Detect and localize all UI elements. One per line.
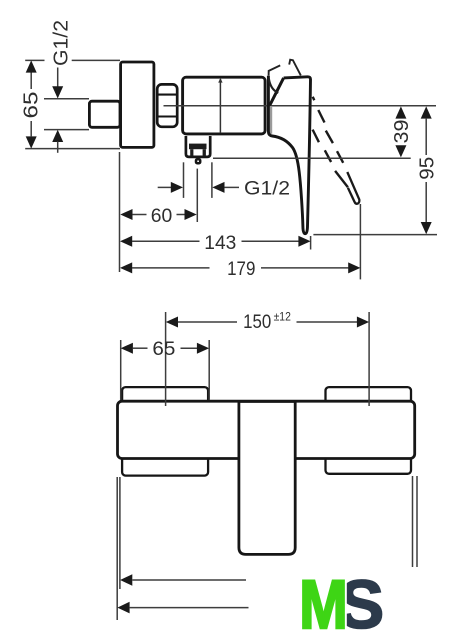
lever handle (closed position) bbox=[268, 76, 310, 234]
svg-text:150: 150 bbox=[243, 312, 271, 333]
svg-text:179: 179 bbox=[227, 259, 255, 280]
svg-text:39: 39 bbox=[390, 120, 413, 144]
dimension 39 bbox=[390, 106, 413, 157]
dimension 65 (escutcheon width) bbox=[121, 339, 209, 360]
dimension 179 bbox=[120, 259, 360, 280]
svg-text:M: M bbox=[299, 566, 348, 640]
extension line top of flange bbox=[25, 59, 120, 61]
unlabeled dimension row 2 bbox=[117, 602, 248, 614]
mixer body bar (front) bbox=[118, 401, 415, 458]
extension line lever tip bbox=[310, 236, 312, 250]
extension line top of inlet thread bbox=[44, 98, 89, 100]
dimension 95 bbox=[416, 106, 439, 234]
dimension 150+-12 bbox=[166, 311, 369, 333]
outlet block bbox=[186, 136, 210, 157]
line at lever tip (95 reference) bbox=[313, 234, 437, 236]
extension lines bottom left bbox=[116, 477, 118, 620]
svg-text:143: 143 bbox=[204, 233, 236, 254]
dashed lever tip bbox=[347, 172, 359, 204]
dimension 65 (flange height) bbox=[19, 60, 42, 148]
dimension G1/2 (outlet thread) bbox=[158, 178, 290, 199]
extension line dashed lever tip bbox=[359, 204, 361, 279]
lever handle open position (dashed outline) bbox=[313, 97, 348, 188]
extension line left escutcheon right edge bbox=[208, 340, 210, 400]
body seam line with tiny arrow bbox=[218, 78, 222, 133]
extension line left union center bbox=[165, 312, 167, 406]
svg-text:60: 60 bbox=[151, 206, 173, 227]
svg-text:95: 95 bbox=[416, 157, 439, 180]
extension line left escutcheon left edge bbox=[120, 340, 122, 400]
svg-text:G1/2: G1/2 bbox=[49, 20, 72, 66]
extension lines bottom right bbox=[412, 476, 414, 567]
right wall escutcheon (front) bbox=[326, 387, 412, 474]
extension line right union center bbox=[368, 312, 370, 406]
extension line outlet right edge bbox=[211, 162, 213, 198]
unlabeled dimension row 1 bbox=[120, 574, 246, 586]
svg-text:±12: ±12 bbox=[274, 311, 291, 323]
wall flange (side view) bbox=[121, 62, 154, 147]
lever swing indicator lines bbox=[269, 60, 301, 76]
mixer body bbox=[183, 77, 266, 134]
left wall escutcheon (front) bbox=[122, 387, 208, 476]
svg-text:G1/2: G1/2 bbox=[244, 178, 290, 199]
inlet connector stub bbox=[89, 101, 120, 127]
handle block (front) bbox=[239, 402, 295, 555]
union nut bbox=[156, 84, 178, 126]
label G1/2 (inlet thread, vertical) bbox=[49, 20, 72, 153]
line at bottom of outlet (39 reference) bbox=[213, 157, 411, 159]
handle escutcheon gray gap bbox=[270, 106, 273, 134]
extension line outlet left edge bbox=[183, 162, 185, 198]
MS logo bbox=[299, 566, 384, 640]
extension line bottom of inlet thread bbox=[44, 129, 89, 131]
lever swing arc bbox=[269, 78, 279, 93]
svg-text:65: 65 bbox=[19, 92, 42, 119]
extension line bottom of flange bbox=[25, 148, 120, 150]
outlet nipple bbox=[196, 159, 200, 163]
svg-text:65: 65 bbox=[152, 339, 175, 360]
extension line flange left edge down bbox=[119, 152, 121, 272]
centerline (pipe axis) bbox=[164, 105, 437, 107]
extension line outlet centerline bbox=[196, 169, 198, 222]
dimension 143 bbox=[120, 233, 311, 254]
dimension 60 bbox=[120, 206, 196, 227]
